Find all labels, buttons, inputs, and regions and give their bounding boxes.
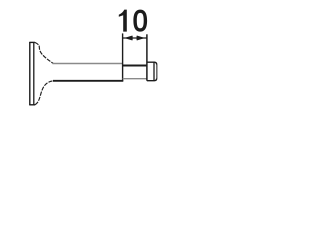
dimension arrow left (126, 36, 133, 40)
flange bottom cap (29, 104, 35, 106)
dimension arrow right (137, 36, 144, 40)
flange left face line (29, 42, 31, 105)
dimension text digit 0 (133, 10, 147, 32)
bottom fillet dashed curve (35, 81, 53, 105)
end cap right face line (156, 65, 158, 79)
stem top line (53, 63, 123, 65)
neck bottom line (123, 78, 147, 80)
cap left edge + right extension line (146, 34, 148, 80)
step edge + left extension line (122, 33, 124, 80)
stem bottom line (53, 80, 123, 82)
neck top line (123, 65, 147, 67)
dimension text digit 1 (119, 10, 127, 32)
top fillet dashed curve (35, 42, 53, 63)
flange top cap (29, 41, 35, 43)
end cap chamfer ring line (153, 62, 155, 81)
flange right face line (33, 43, 35, 105)
dimension line (123, 37, 147, 39)
end cap outline (147, 62, 157, 80)
